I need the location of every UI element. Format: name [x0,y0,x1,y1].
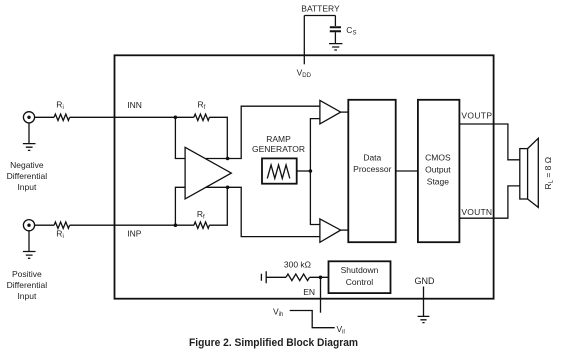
wire VDD vertical [303,16,305,65]
capacitor Cs [330,27,341,43]
junction INP / Rf [174,223,178,227]
wire INN to op-amp inverting input [175,117,185,158]
wire INP to op-amp non-inverting input [175,187,185,225]
svg-text:Ri: Ri [56,99,63,111]
speaker RL [520,138,539,207]
logic level step waveform [290,311,335,328]
wire battery top [304,15,335,17]
svg-text:VOUTN: VOUTN [461,207,492,217]
junction ramp [309,169,313,173]
wire ramp generator output [297,170,311,172]
svg-text:RAMPGENERATOR: RAMPGENERATOR [252,134,305,154]
svg-text:Rf: Rf [198,100,206,112]
junction Rf bottom / output [226,186,230,190]
wire ramp to comparator 1 [310,119,320,171]
wire EN down [320,277,322,312]
svg-text:PositiveDifferentialInput: PositiveDifferentialInput [7,269,48,301]
wire data processor to cmos [396,170,418,172]
wire Rf top to upper output [209,117,227,158]
svg-text:Vil: Vil [337,324,345,336]
ground (battery bypass) [329,44,342,50]
wire negative input [35,116,194,118]
svg-text:Rf: Rf [197,209,205,221]
resistor Ri (positive) [54,222,69,228]
svg-text:CMOSOutputStage: CMOSOutputStage [425,152,451,186]
wire to capacitor Cs [334,16,336,27]
resistor Ri (negative) [54,114,69,120]
svg-text:GND: GND [415,276,436,286]
resistor Rf (bottom) [194,222,210,228]
resistor Rf (top) [194,114,210,120]
Data Processor box [348,100,395,242]
wire ramp to comparator 2 [310,171,320,225]
wire amp lower output to comparator 2 [206,187,320,236]
wire Rf bottom to lower output [209,187,227,225]
op-amp U1 (differential input amplifier) [185,147,231,199]
comparator 2 (bottom) [320,219,341,242]
wire comparator 2 output [341,229,349,231]
ground (GND pin) [418,316,430,322]
junction INN / Rf [174,116,178,120]
outer device boundary box [115,55,494,298]
wire amp upper output to comparator 1 [206,106,320,158]
ramp generator box [262,158,297,183]
ground (positive input) [23,231,36,258]
input terminal negative [23,112,34,123]
svg-text:BATTERY: BATTERY [301,4,340,14]
svg-text:CS: CS [346,25,356,37]
wire GND [423,287,425,317]
input terminal positive [23,220,34,231]
pull-up symbol (EN bias) [261,271,266,283]
svg-text:NegativeDifferentialInput: NegativeDifferentialInput [7,160,48,192]
wire positive input [35,224,194,226]
svg-text:VOUTP: VOUTP [461,110,492,120]
Shutdown Control box [329,261,391,293]
svg-text:VDD: VDD [297,67,312,79]
junction EN [319,276,323,280]
wire comparator 1 output [341,111,349,113]
svg-text:ShutdownControl: ShutdownControl [341,265,379,287]
ground (negative input) [23,123,36,150]
svg-text:INP: INP [127,228,142,238]
svg-text:Figure 2. Simplified Block Dia: Figure 2. Simplified Block Diagram [189,337,358,349]
wire EN right [310,276,329,278]
resistor 300 kohm [286,274,310,281]
svg-text:INN: INN [127,100,142,110]
svg-text:Vih: Vih [273,306,283,318]
svg-text:EN: EN [303,287,315,297]
svg-text:300 kΩ: 300 kΩ [284,260,311,270]
comparator 1 (top) [320,100,341,124]
wire EN left [266,276,286,278]
wire VOUTP [459,124,519,160]
wire VOUTN [459,186,519,218]
junction Rf top / output [226,157,230,161]
ramp waveform symbol [267,165,290,179]
CMOS Output Stage box [418,100,460,242]
svg-text:Ri: Ri [56,229,63,241]
svg-text:DataProcessor: DataProcessor [353,152,391,174]
svg-text:RL = 8 Ω: RL = 8 Ω [543,157,555,190]
